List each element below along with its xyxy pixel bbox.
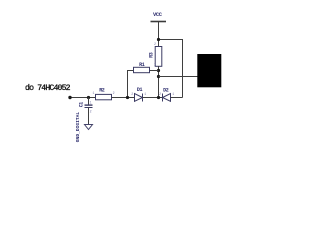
junction C1 branch (87, 96, 90, 99)
svg-text:1: 1 (172, 92, 174, 96)
capacitor C1 (85, 104, 93, 106)
wire: D1 to D2 (143, 97, 163, 99)
svg-text:R1: R1 (139, 62, 145, 68)
svg-text:D1: D1 (137, 87, 143, 93)
resistor R3 (155, 47, 162, 67)
diode D1 (135, 94, 143, 102)
pin number specks (90, 42, 175, 113)
wire: D2 to right vertical (171, 97, 183, 99)
wire: VCC down to R3 top (158, 22, 160, 47)
wire: main line start (70, 97, 96, 99)
junction R3 bottom / R1 right (157, 69, 160, 72)
wire: C1 branch down (88, 98, 90, 106)
wire: R1 right lead (150, 70, 159, 72)
svg-text:2: 2 (159, 92, 161, 96)
svg-text:2: 2 (113, 91, 115, 95)
svg-text:1: 1 (144, 92, 146, 96)
junction R3 branch on main line (157, 96, 160, 99)
svg-text:2: 2 (131, 92, 133, 96)
svg-text:R3: R3 (149, 52, 155, 58)
ground symbol (85, 125, 93, 130)
svg-text:1: 1 (92, 91, 94, 95)
wire: R2 to D1 (112, 97, 135, 99)
resistor R2 (96, 94, 112, 99)
svg-text:do 74HC4052: do 74HC4052 (25, 83, 71, 93)
svg-text:2: 2 (154, 42, 156, 46)
pin dot at main line start (68, 96, 71, 99)
svg-text:R2: R2 (99, 88, 105, 94)
svg-text:1: 1 (154, 63, 156, 67)
svg-text:GND_DIGITAL: GND_DIGITAL (75, 112, 81, 143)
wire: top branch right then down to main line (159, 40, 183, 98)
wire: R1 left lead and down to main line (128, 71, 134, 98)
svg-text:2: 2 (90, 109, 92, 113)
wire: C1 to ground (88, 108, 90, 125)
diode D2 (163, 94, 171, 102)
wire: R3 bottom to main line (158, 66, 160, 97)
wire: to black box (159, 76, 198, 78)
svg-text:1: 1 (90, 101, 92, 105)
VCC power symbol bar (151, 21, 167, 23)
svg-text:D2: D2 (163, 88, 169, 94)
black box (197, 54, 221, 87)
svg-text:C1: C1 (78, 102, 84, 108)
resistor R1 (134, 67, 150, 72)
junction R1 branch (126, 96, 129, 99)
junction for box wire (157, 75, 160, 78)
svg-text:VCC: VCC (153, 12, 163, 18)
junction at VCC branch (157, 38, 160, 41)
